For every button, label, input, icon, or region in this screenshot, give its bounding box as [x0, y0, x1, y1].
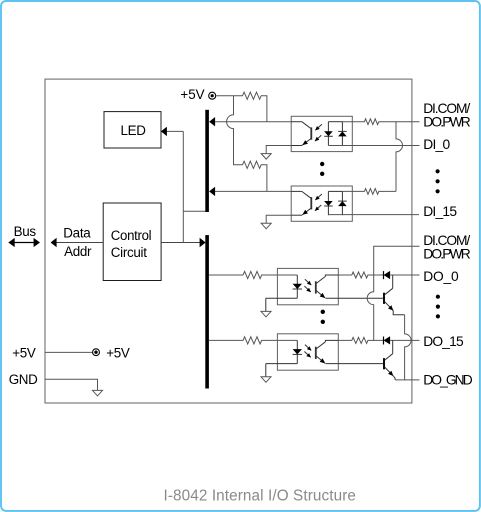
svg-text:DI_0: DI_0 — [423, 137, 450, 152]
svg-text:I-8042 Internal I/O Structure: I-8042 Internal I/O Structure — [164, 488, 357, 505]
svg-text:Bus: Bus — [14, 224, 37, 239]
svg-text:DO_15: DO_15 — [423, 334, 464, 349]
svg-text:DI_15: DI_15 — [423, 204, 457, 219]
svg-text:+5V: +5V — [106, 345, 130, 360]
svg-text:DO.PWR: DO.PWR — [423, 114, 471, 129]
svg-text:Control: Control — [111, 228, 152, 243]
svg-text:GND: GND — [9, 372, 38, 387]
svg-text:+5V: +5V — [180, 87, 204, 102]
svg-text:DO.PWR: DO.PWR — [423, 247, 471, 262]
svg-text:LED: LED — [121, 123, 147, 138]
svg-text:Addr: Addr — [64, 244, 92, 259]
svg-text:Circuit: Circuit — [111, 245, 147, 260]
svg-text:DO_0: DO_0 — [423, 269, 459, 284]
svg-text:+5V: +5V — [12, 345, 36, 360]
svg-text:DO_GND: DO_GND — [423, 373, 473, 388]
svg-text:DI.COM/: DI.COM/ — [423, 233, 470, 248]
svg-text:Data: Data — [63, 226, 91, 241]
